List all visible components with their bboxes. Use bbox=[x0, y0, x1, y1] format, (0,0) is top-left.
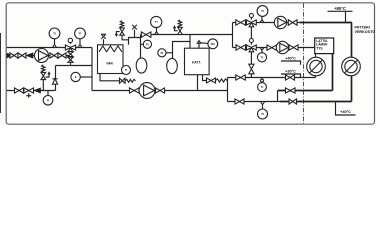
gauge PI4 bbox=[158, 49, 172, 57]
wire: KATT bottom riser bbox=[197, 74, 199, 91]
valve V23 bottom return bbox=[235, 99, 244, 104]
valve V20 on bypass leg bbox=[249, 64, 254, 74]
pump P1 bbox=[35, 49, 49, 63]
valve V9 VAR drain bbox=[120, 78, 126, 83]
label +40C bottom bbox=[336, 102, 356, 116]
valve V19 floor return bbox=[236, 75, 246, 80]
svg-text:PIA: PIA bbox=[211, 43, 215, 46]
three-way valve TV1 bbox=[247, 14, 257, 27]
flex hose VAR drain bbox=[125, 79, 136, 82]
svg-text:+40°C: +40°C bbox=[285, 57, 296, 61]
safety valve SV1 on fill line bbox=[41, 65, 50, 91]
wire: radiator return bottom line bbox=[228, 101, 281, 103]
flex hose KATT drain bbox=[216, 79, 228, 82]
wire: oval1 drop bbox=[140, 35, 142, 59]
scan edge bbox=[0, 33, 1, 113]
wire: VAR top U-pipe bbox=[129, 38, 141, 45]
svg-text:+30°C: +30°C bbox=[285, 70, 296, 74]
valve V8 with drain bbox=[24, 88, 34, 98]
wire: VAR drain pipe bbox=[100, 74, 120, 81]
safety valve SV0 on VAR top bbox=[115, 21, 124, 37]
svg-text:TI: TI bbox=[261, 9, 264, 13]
valve V16 floor supply bbox=[236, 45, 246, 50]
system boundary dash-dot line bbox=[303, 3, 305, 123]
instrument TI3 near VAR bbox=[122, 66, 131, 75]
valve V4 bbox=[58, 53, 66, 58]
wire: middle return segment bbox=[278, 90, 333, 92]
wire: PIA horizontal bbox=[201, 42, 208, 45]
wire: oval2 riser and top run bbox=[173, 42, 191, 59]
svg-text:PI: PI bbox=[146, 43, 149, 47]
gauge PI1 left bbox=[71, 72, 92, 81]
svg-text:TI: TI bbox=[261, 56, 264, 60]
wire: mixing leg from TV0 bbox=[70, 50, 72, 66]
svg-text:VAR: VAR bbox=[106, 62, 113, 66]
valve V11 KATT drain bbox=[207, 78, 216, 83]
wire: bypass leg TV2 to return bbox=[250, 50, 252, 77]
valve V24 bottom return bbox=[289, 99, 297, 104]
svg-text:+80°C: +80°C bbox=[334, 6, 346, 11]
valve V12 bottom main bbox=[130, 88, 140, 93]
svg-text:+40°C: +40°C bbox=[340, 110, 351, 114]
valve V17 floor supply bbox=[267, 45, 277, 50]
wire: radiator drop to meter bbox=[351, 23, 353, 58]
wire: radiator supply line thick part bbox=[300, 22, 352, 24]
valve V6 vertical on mixing leg bbox=[68, 57, 73, 62]
svg-text:TI: TI bbox=[155, 20, 158, 24]
wire: +80C label stem bbox=[345, 11, 347, 22]
closed valve X on U-pipe vent bbox=[132, 25, 137, 38]
instrument TI1 bbox=[49, 28, 60, 47]
wire: KATT drain drop bbox=[203, 74, 207, 81]
gauge PI3 bbox=[140, 40, 151, 48]
pump P3 radiator bbox=[274, 16, 286, 28]
instrument TI7 bbox=[258, 78, 267, 92]
valve V22 middle return bbox=[286, 88, 296, 93]
label +80C bbox=[328, 6, 353, 12]
heat meter M2 bbox=[342, 57, 361, 76]
check valve CV2 bbox=[34, 88, 40, 93]
instrument TI4 on header bbox=[151, 16, 162, 34]
svg-text:TYS: TYS bbox=[316, 46, 322, 50]
valve V21 floor return bbox=[286, 75, 295, 80]
svg-text:TI: TI bbox=[261, 112, 264, 116]
label +30C mid bbox=[281, 70, 301, 78]
label +40C mid bbox=[281, 57, 301, 65]
svg-text:VERKOSTO: VERKOSTO bbox=[355, 30, 376, 34]
label box LATTIA LAMMITYS bbox=[315, 38, 334, 54]
wire: fill water line bbox=[7, 90, 56, 92]
pump P4 floor bbox=[276, 41, 288, 53]
check valve CV1 bbox=[27, 53, 34, 58]
svg-text:KATT.: KATT. bbox=[192, 60, 201, 64]
label PATTERI VERKOSTO bbox=[355, 26, 376, 34]
wire: top-left return line bbox=[7, 47, 92, 49]
svg-text:PI: PI bbox=[161, 51, 164, 55]
valve V5 vertical on mixing leg bbox=[68, 52, 73, 57]
expansion vessel oval2 bbox=[167, 58, 178, 73]
wire: floor label box drop bbox=[332, 54, 334, 91]
valve V14 radiator supply bbox=[236, 20, 246, 25]
expansion vessel oval1 bbox=[136, 58, 147, 73]
valve V2 bbox=[18, 53, 26, 58]
wire: fill riser bbox=[55, 66, 57, 91]
instrument TI2 bbox=[75, 28, 86, 47]
pressure reducer on fill riser bbox=[52, 79, 57, 84]
instrument TI8 bbox=[258, 102, 268, 120]
heat meter M1 bbox=[307, 57, 326, 76]
valve V13 bottom main bbox=[156, 88, 165, 93]
safety valve SV2 on header bbox=[173, 20, 182, 35]
instrument TI6 bbox=[257, 48, 266, 62]
valve V10 on header bbox=[141, 32, 151, 37]
wire: bottom main line bbox=[92, 90, 228, 92]
wire: meter1 top stem bbox=[315, 54, 317, 57]
wire: leg from TV1 to TV2 actuator bbox=[250, 25, 252, 39]
wire: KATT top riser bbox=[189, 35, 191, 49]
gauge PI2 under fill line bbox=[43, 91, 53, 106]
wire: return riser x227 bbox=[227, 78, 229, 102]
boiler VAR bbox=[98, 45, 124, 74]
svg-text:TI: TI bbox=[79, 32, 82, 36]
border frame bbox=[6, 3, 374, 124]
svg-text:TI: TI bbox=[125, 68, 128, 72]
wire: boiler inlet line bbox=[56, 65, 93, 67]
svg-text:TI: TI bbox=[53, 32, 56, 36]
valve V15 radiator supply bbox=[288, 20, 297, 25]
wire: meter2 to bottom bbox=[351, 75, 353, 101]
instrument TI5 bbox=[257, 6, 268, 23]
wire: radiator supply line bbox=[233, 22, 301, 24]
pump P2 bottom main bbox=[139, 83, 155, 99]
valve V3 bbox=[50, 53, 58, 58]
wire: radiator return bottom thick bbox=[280, 101, 352, 103]
three-way valve TV2 bbox=[247, 39, 257, 52]
svg-text:TI: TI bbox=[261, 85, 264, 89]
wire: meter1 bottom stem bbox=[315, 75, 317, 77]
valve V18 floor supply bbox=[289, 45, 298, 50]
wire: left riser to bottom main bbox=[91, 48, 93, 91]
valve V1 bbox=[10, 53, 18, 58]
wire: floor heating supply line bbox=[233, 47, 315, 49]
inlet arrow on supply line bbox=[7, 53, 13, 57]
wire: header line bbox=[141, 34, 233, 36]
wire: circuits riser bbox=[232, 23, 234, 48]
wire: floor return line bbox=[228, 77, 316, 79]
valve V7 on fill line bbox=[15, 88, 24, 93]
wire: left supply line bbox=[7, 55, 71, 57]
wire: riser x277 bbox=[277, 91, 279, 102]
wire: safety group step to VAR bbox=[122, 35, 128, 40]
boiler KATT bbox=[185, 48, 210, 74]
instrument PIA bbox=[197, 39, 218, 49]
vent valve X on VAR top bbox=[101, 34, 106, 45]
three-way valve TV0 bbox=[65, 38, 75, 52]
